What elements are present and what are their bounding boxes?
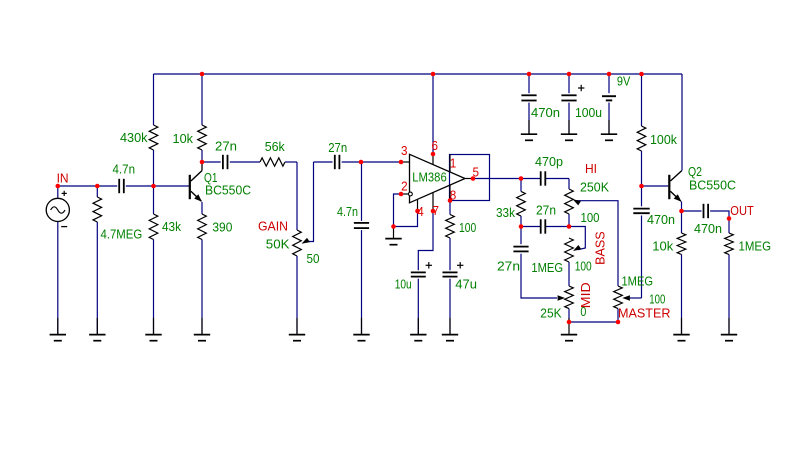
svg-text:27n: 27n [215, 139, 237, 154]
svg-text:43k: 43k [162, 219, 181, 234]
svg-text:56k: 56k [265, 139, 286, 154]
svg-text:4: 4 [417, 204, 424, 219]
svg-text:50: 50 [307, 251, 320, 266]
svg-text:3: 3 [401, 143, 408, 158]
svg-text:MASTER: MASTER [618, 306, 671, 321]
svg-text:1MEG: 1MEG [622, 274, 654, 289]
svg-text:10k: 10k [173, 131, 194, 146]
svg-text:27n: 27n [328, 140, 347, 155]
svg-text:390: 390 [212, 220, 232, 235]
svg-text:470n: 470n [647, 212, 675, 227]
svg-text:4.7MEG: 4.7MEG [101, 227, 143, 242]
svg-text:2: 2 [401, 179, 408, 194]
svg-text:9V: 9V [617, 74, 631, 89]
svg-text:470n: 470n [531, 105, 560, 120]
svg-text:1MEG: 1MEG [531, 260, 563, 275]
svg-text:470p: 470p [535, 154, 563, 169]
svg-text:47u: 47u [455, 277, 477, 292]
svg-text:430k: 430k [120, 130, 148, 145]
svg-text:100: 100 [649, 292, 665, 307]
svg-text:OUT: OUT [730, 203, 754, 218]
svg-text:HI: HI [585, 161, 597, 176]
svg-text:BASS: BASS [593, 231, 608, 265]
svg-text:250K: 250K [580, 180, 609, 195]
svg-text:6: 6 [432, 138, 439, 153]
svg-text:LM386: LM386 [412, 170, 446, 185]
svg-text:10k: 10k [652, 238, 673, 253]
svg-text:4.7n: 4.7n [337, 204, 358, 219]
svg-text:BC550C: BC550C [205, 183, 251, 198]
svg-text:470n: 470n [694, 221, 722, 236]
svg-text:100u: 100u [575, 105, 602, 120]
svg-text:GAIN: GAIN [258, 219, 288, 234]
svg-text:7: 7 [433, 203, 440, 218]
svg-text:5: 5 [473, 164, 480, 179]
svg-text:27n: 27n [536, 203, 556, 218]
svg-text:27n: 27n [497, 258, 520, 273]
svg-text:100: 100 [575, 259, 592, 274]
svg-text:100: 100 [581, 210, 600, 225]
svg-text:BC550C: BC550C [689, 178, 736, 193]
svg-text:1MEG: 1MEG [739, 238, 772, 253]
svg-text:100: 100 [459, 220, 476, 235]
svg-text:IN: IN [57, 171, 69, 186]
svg-text:1: 1 [450, 155, 457, 170]
svg-text:50K: 50K [266, 237, 290, 252]
svg-text:100k: 100k [650, 132, 677, 147]
svg-text:25K: 25K [540, 306, 562, 321]
svg-text:8: 8 [450, 187, 457, 202]
svg-text:10u: 10u [395, 277, 412, 292]
svg-text:33k: 33k [496, 205, 515, 220]
svg-text:4.7n: 4.7n [113, 162, 136, 177]
svg-text:MID: MID [578, 282, 593, 308]
